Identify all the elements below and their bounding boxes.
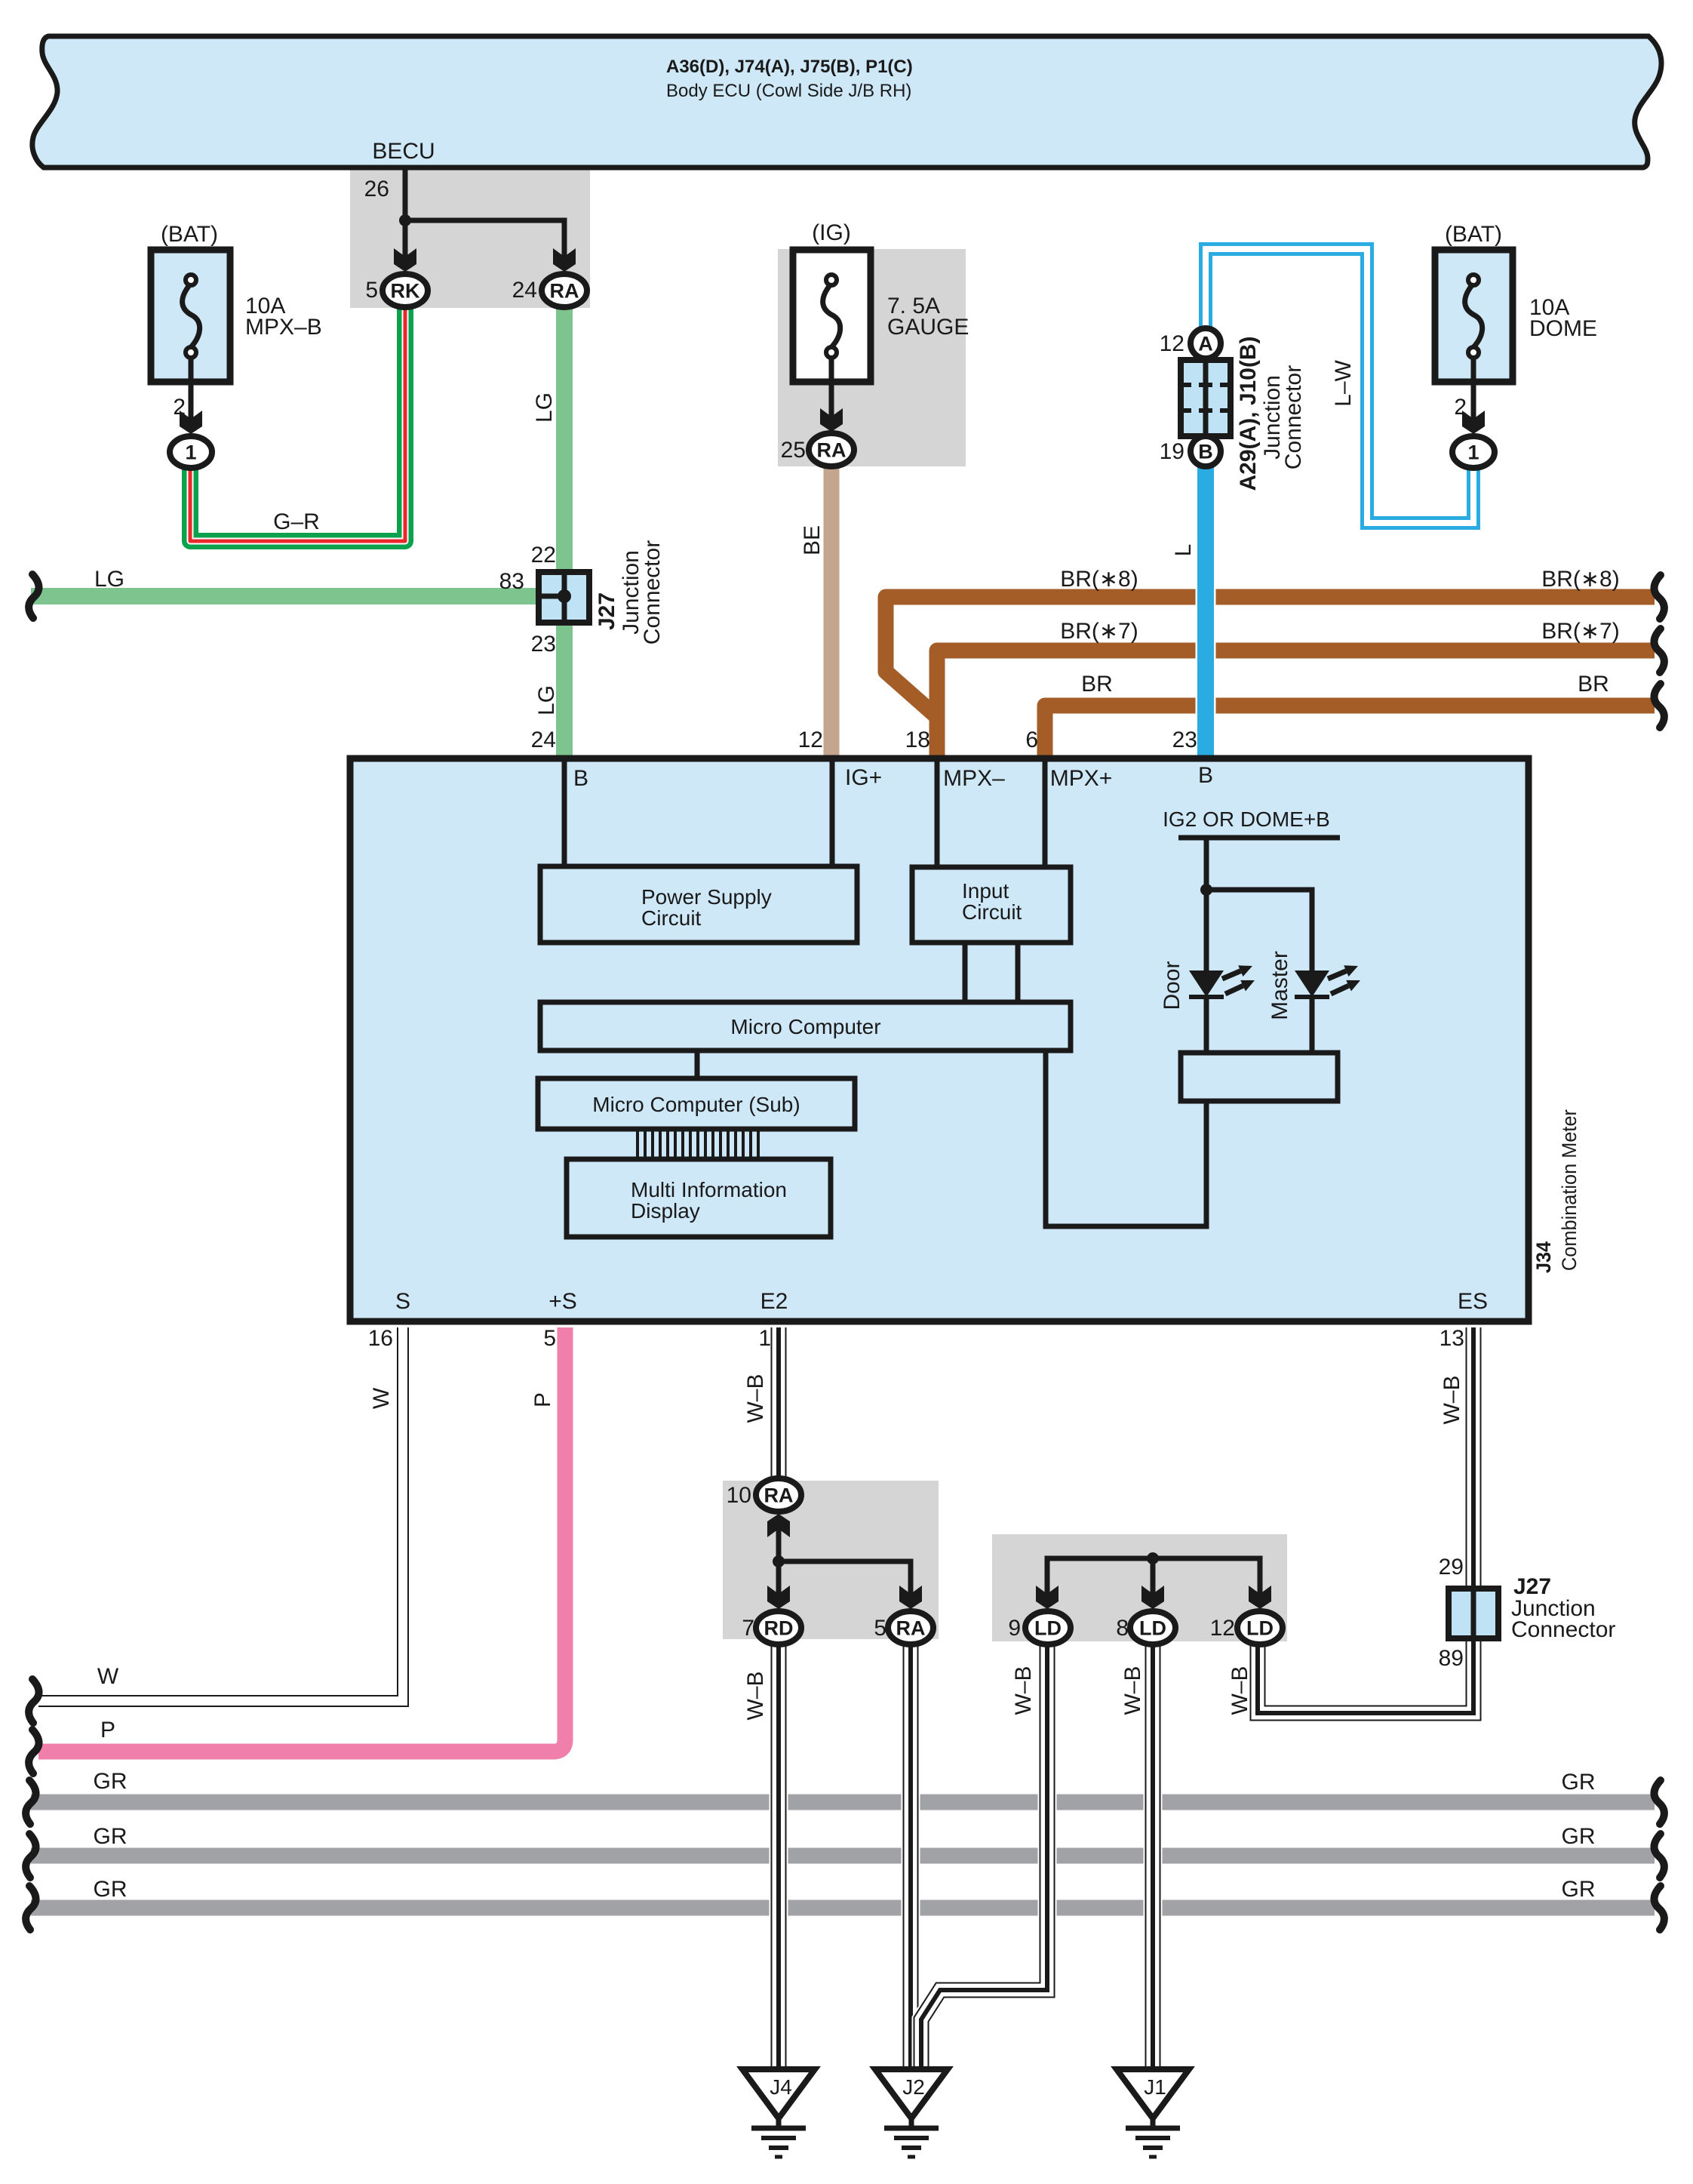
svg-text:B: B	[1198, 441, 1213, 463]
svg-text:Power Supply: Power Supply	[641, 885, 772, 909]
svg-text:(IG): (IG)	[812, 220, 851, 245]
svg-text:Multi Information: Multi Information	[631, 1178, 787, 1201]
svg-text:RA: RA	[550, 280, 579, 303]
svg-text:12: 12	[1210, 1616, 1235, 1641]
svg-text:+S: +S	[548, 1289, 577, 1314]
svg-text:12: 12	[1160, 331, 1184, 356]
svg-text:16: 16	[368, 1326, 393, 1351]
svg-text:L–W: L–W	[1331, 359, 1356, 406]
svg-text:J1: J1	[1144, 2075, 1166, 2099]
svg-text:G–R: G–R	[273, 509, 320, 534]
svg-text:Circuit: Circuit	[962, 900, 1022, 924]
svg-text:BR(∗8): BR(∗8)	[1060, 567, 1138, 592]
svg-text:A29(A), J10(B): A29(A), J10(B)	[1236, 336, 1261, 491]
svg-text:7: 7	[742, 1616, 754, 1641]
svg-text:J2: J2	[902, 2075, 925, 2099]
svg-text:5: 5	[874, 1616, 886, 1641]
svg-text:RD: RD	[764, 1617, 794, 1640]
svg-text:LD: LD	[1246, 1617, 1274, 1640]
svg-text:J34: J34	[1532, 1241, 1555, 1273]
svg-text:J4: J4	[770, 2075, 792, 2099]
svg-text:18: 18	[905, 727, 930, 752]
svg-text:P: P	[530, 1392, 555, 1407]
svg-text:12: 12	[798, 727, 823, 752]
svg-text:GR: GR	[94, 1877, 128, 1902]
svg-text:BR(∗8): BR(∗8)	[1541, 567, 1619, 592]
svg-text:LD: LD	[1034, 1617, 1062, 1640]
svg-text:BECU: BECU	[372, 139, 435, 164]
svg-text:Door: Door	[1160, 961, 1184, 1010]
svg-text:(BAT): (BAT)	[1445, 222, 1502, 247]
svg-text:BE: BE	[800, 525, 825, 555]
svg-text:9: 9	[1008, 1616, 1021, 1641]
svg-text:MPX–B: MPX–B	[245, 315, 322, 340]
svg-text:Display: Display	[631, 1199, 700, 1223]
svg-text:Connector: Connector	[640, 540, 665, 644]
svg-text:MPX+: MPX+	[1050, 766, 1113, 791]
svg-text:GR: GR	[1562, 1824, 1596, 1849]
svg-text:E2: E2	[760, 1289, 788, 1314]
svg-text:Connector: Connector	[1511, 1617, 1615, 1642]
svg-text:RK: RK	[391, 280, 420, 303]
svg-text:10: 10	[727, 1483, 751, 1508]
svg-text:W: W	[97, 1664, 119, 1689]
svg-text:1: 1	[185, 441, 196, 464]
svg-text:13: 13	[1440, 1326, 1464, 1351]
svg-text:83: 83	[499, 569, 524, 594]
svg-text:IG+: IG+	[845, 765, 882, 790]
svg-text:A: A	[1198, 333, 1213, 355]
svg-text:LG: LG	[534, 685, 559, 715]
svg-text:22: 22	[531, 543, 556, 568]
svg-text:RA: RA	[817, 439, 847, 462]
svg-text:W–B: W–B	[743, 1373, 768, 1423]
svg-text:GR: GR	[1562, 1877, 1596, 1902]
svg-text:A36(D), J74(A), J75(B), P1(C): A36(D), J74(A), J75(B), P1(C)	[666, 57, 913, 77]
svg-text:W–B: W–B	[1440, 1375, 1464, 1424]
svg-text:B: B	[573, 766, 588, 791]
svg-text:5: 5	[365, 278, 378, 303]
svg-text:W: W	[369, 1387, 394, 1409]
svg-text:Micro Computer (Sub): Micro Computer (Sub)	[592, 1093, 800, 1116]
svg-text:Body ECU (Cowl Side J/B RH): Body ECU (Cowl Side J/B RH)	[666, 81, 911, 101]
svg-text:Master: Master	[1267, 951, 1292, 1020]
svg-text:24: 24	[512, 278, 537, 303]
svg-text:25: 25	[781, 438, 806, 463]
svg-text:26: 26	[364, 177, 389, 201]
svg-text:ES: ES	[1458, 1289, 1488, 1314]
svg-text:8: 8	[1116, 1616, 1129, 1641]
svg-text:BR(∗7): BR(∗7)	[1541, 619, 1619, 644]
svg-text:24: 24	[531, 727, 556, 752]
svg-text:(BAT): (BAT)	[161, 222, 218, 247]
svg-text:GR: GR	[94, 1769, 128, 1794]
svg-text:LG: LG	[94, 567, 124, 592]
svg-text:J27: J27	[595, 592, 619, 630]
svg-text:BR(∗7): BR(∗7)	[1060, 619, 1138, 644]
svg-text:B: B	[1198, 763, 1213, 788]
svg-text:19: 19	[1160, 439, 1184, 464]
svg-text:W–B: W–B	[1120, 1666, 1145, 1715]
svg-text:Connector: Connector	[1281, 365, 1306, 469]
svg-text:S: S	[395, 1289, 410, 1314]
svg-text:P: P	[100, 1718, 115, 1743]
svg-text:GR: GR	[1562, 1770, 1596, 1795]
svg-text:5: 5	[543, 1326, 556, 1351]
svg-text:Micro Computer: Micro Computer	[730, 1015, 880, 1038]
svg-text:W–B: W–B	[743, 1671, 768, 1720]
svg-text:89: 89	[1439, 1646, 1464, 1671]
svg-text:1: 1	[1467, 441, 1479, 464]
svg-text:1: 1	[758, 1326, 771, 1351]
svg-text:Combination Meter: Combination Meter	[1558, 1109, 1581, 1271]
svg-text:RA: RA	[764, 1484, 794, 1507]
svg-text:L: L	[1171, 544, 1196, 557]
svg-text:IG2 OR DOME+B: IG2 OR DOME+B	[1163, 807, 1330, 831]
svg-text:LG: LG	[532, 392, 557, 423]
svg-text:W–B: W–B	[1011, 1666, 1036, 1715]
svg-text:23: 23	[1172, 727, 1197, 752]
svg-text:2: 2	[1454, 395, 1467, 420]
svg-text:BR: BR	[1081, 672, 1113, 697]
svg-text:LD: LD	[1139, 1617, 1166, 1640]
svg-text:GR: GR	[94, 1824, 128, 1849]
svg-text:W–B: W–B	[1228, 1666, 1252, 1715]
svg-text:DOME: DOME	[1529, 316, 1597, 341]
svg-text:RA: RA	[896, 1617, 926, 1640]
svg-text:29: 29	[1439, 1555, 1464, 1580]
svg-text:GAUGE: GAUGE	[887, 315, 969, 340]
svg-text:6: 6	[1025, 727, 1038, 752]
svg-text:2: 2	[173, 395, 186, 420]
svg-text:MPX–: MPX–	[943, 766, 1005, 791]
svg-text:BR: BR	[1578, 672, 1609, 697]
svg-text:23: 23	[531, 632, 556, 657]
svg-text:Circuit: Circuit	[641, 906, 702, 930]
svg-text:Input: Input	[962, 879, 1009, 903]
